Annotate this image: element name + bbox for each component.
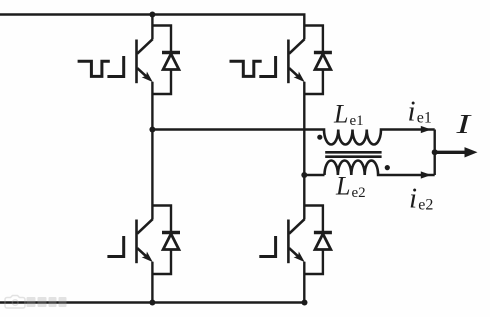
diode D2 branch wire (bottom tee)	[304, 70, 323, 95]
inductor Le1 winding (top)	[304, 130, 434, 145]
diode D2 branch wire (top tee)	[304, 26, 323, 53]
diode D4 branch wire (bottom tee)	[304, 250, 323, 275]
diode D3 triangle (anode, pointing up)	[163, 234, 179, 250]
wire: left leg middle segment (Q1 emitter to Q3 collector)	[151, 82, 153, 220]
transistor Q2 gate lead (L-shape)	[259, 56, 275, 77]
transistor Q4 emitter lead with arrow	[289, 248, 305, 262]
diode D4 branch wire (top tee)	[304, 206, 323, 233]
wire: Le2 tap from right leg	[304, 174, 324, 176]
wire: bottom rail (negative bus)	[0, 301, 305, 303]
inductor Le1 polarity dot	[317, 135, 322, 140]
junction: top rail / left leg	[149, 12, 155, 18]
current ie2 arrowhead	[421, 171, 431, 178]
coupled inductor core (double line)	[325, 152, 381, 156]
wire: mid rail (phase A node to coupled inductor)	[152, 128, 304, 130]
gate drive pulse waveform for Q2	[230, 61, 262, 76]
diode D4 triangle (anode, pointing up)	[315, 234, 331, 250]
current ie1 arrowhead	[421, 126, 431, 133]
svg-text:ie2: ie2	[409, 183, 433, 215]
junction: right leg / Le2 wire (node b)	[301, 172, 307, 178]
junction: mid rail / left leg (node a)	[149, 127, 155, 133]
diode D3 branch wire (top tee)	[152, 206, 171, 233]
transistor Q3 collector lead	[137, 219, 153, 234]
wire: left leg bottom segment (Q3 emitter to bottom rail)	[151, 262, 153, 303]
transistor Q1 collector lead	[137, 39, 153, 54]
transistor Q4 gate lead (L-shape)	[259, 236, 275, 257]
diode D3 cathode bar	[162, 231, 180, 234]
svg-text:ie1: ie1	[408, 96, 432, 128]
transistor Q1 gate lead (L-shape)	[107, 56, 123, 77]
junction: bottom rail / left leg	[149, 300, 155, 306]
wire: right leg middle segment (Q2 emitter to Q4 collector)	[303, 82, 305, 220]
transistor Q3 gate lead (L-shape)	[107, 236, 123, 257]
output current I arrow	[435, 147, 478, 157]
wire: right leg bottom segment (Q4 emitter to bottom rail)	[303, 262, 305, 303]
junction: bottom rail / right leg	[302, 300, 308, 306]
diode D1 triangle (anode, pointing up)	[163, 54, 179, 70]
inductor Le2 winding (bottom)	[325, 161, 435, 176]
transistor Q4 collector lead	[289, 219, 305, 234]
diode D2 triangle (anode, pointing up)	[315, 54, 331, 70]
gate drive pulse waveform for Q1	[78, 61, 110, 76]
transistor Q2 collector lead	[289, 39, 305, 54]
transistor Q1 emitter lead with arrow	[137, 68, 153, 82]
transistor Q2 gate/body bar	[287, 40, 290, 84]
diode D1 branch wire (top tee)	[152, 26, 171, 53]
transistor Q4 gate/body bar	[287, 220, 290, 264]
svg-text:Le1: Le1	[333, 100, 364, 130]
diode D2 cathode bar	[314, 51, 332, 54]
diode D3 branch wire (bottom tee)	[152, 250, 171, 275]
transistor Q3 emitter lead with arrow	[137, 248, 153, 262]
svg-text:Le2: Le2	[335, 172, 366, 202]
inductor Le2 polarity dot	[385, 165, 390, 170]
transistor Q1 gate/body bar	[135, 40, 138, 84]
wire: left leg top segment (Q1 collector feed)	[151, 15, 153, 40]
wire: top rail (positive bus) with corner into right leg	[0, 15, 304, 40]
diode D4 cathode bar	[314, 231, 332, 234]
watermark (faint source logo, bottom-left)	[5, 296, 67, 309]
diode D1 branch wire (bottom tee)	[152, 70, 171, 95]
junction: output tap	[432, 149, 438, 155]
transistor Q2 emitter lead with arrow	[289, 68, 305, 82]
wire: output corner vertical joining ie1 and ie2	[434, 130, 436, 176]
transistor Q3 gate/body bar	[135, 220, 138, 264]
svg-text:I: I	[455, 109, 473, 139]
diode D1 cathode bar	[162, 51, 180, 54]
